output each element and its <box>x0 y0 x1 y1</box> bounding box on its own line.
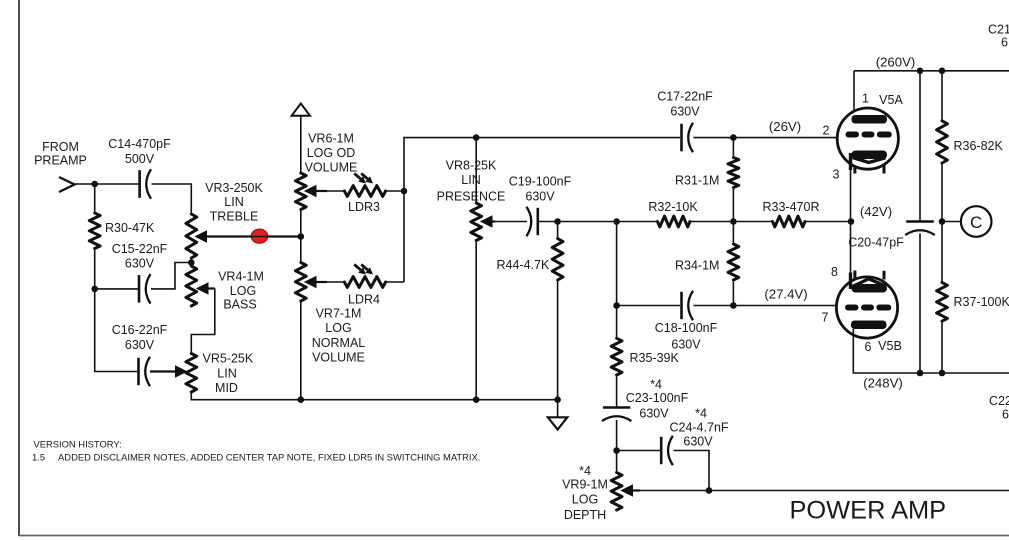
svg-text:500V: 500V <box>125 152 155 166</box>
capacitor C15 <box>138 275 141 303</box>
svg-text:630V: 630V <box>671 338 701 352</box>
wiper VR6 arrow <box>305 186 316 197</box>
svg-text:630V: 630V <box>683 435 713 449</box>
resistor R32 <box>658 216 691 227</box>
svg-text:C16-22nF: C16-22nF <box>112 323 168 337</box>
svg-text:C17-22nF: C17-22nF <box>657 90 713 104</box>
svg-text:1: 1 <box>862 92 869 106</box>
svg-text:LOG OD: LOG OD <box>307 146 356 160</box>
wiper VR9 arrow <box>622 485 633 496</box>
svg-text:LDR4: LDR4 <box>348 293 380 307</box>
svg-text:630V: 630V <box>125 338 155 352</box>
node ground rail junction <box>554 396 561 403</box>
svg-text:6: 6 <box>1002 408 1009 422</box>
svg-text:TREBLE: TREBLE <box>210 210 259 224</box>
wire R32 to R33 <box>690 221 773 223</box>
V5B cathode <box>852 284 888 293</box>
svg-text:630V: 630V <box>525 190 555 204</box>
node LDR3 right junction <box>401 188 408 195</box>
svg-text:V5B: V5B <box>878 339 902 353</box>
node C18 left junction <box>613 302 620 309</box>
capacitor C20 <box>906 220 934 223</box>
V5B grid dashes <box>845 305 859 311</box>
resistor R35 <box>616 306 618 339</box>
wire triangle to VR6 <box>300 116 302 173</box>
resistor R36 <box>941 71 943 121</box>
wire input node down to R30 <box>94 184 96 213</box>
capacitor C14 <box>138 170 141 198</box>
wire node to C15 <box>95 288 138 290</box>
node input junction <box>91 181 98 188</box>
svg-text:7: 7 <box>822 311 829 325</box>
node depth branch <box>613 218 620 225</box>
resistor R34 <box>732 222 734 245</box>
svg-text:C19-100nF: C19-100nF <box>509 175 572 189</box>
svg-text:R36-82K: R36-82K <box>954 139 1004 153</box>
svg-text:2: 2 <box>823 124 830 138</box>
wire VR4 wiper to VR5 top <box>191 289 215 354</box>
svg-text:VR9-1M: VR9-1M <box>562 478 608 492</box>
wire to C terminal <box>942 221 961 223</box>
wiper VR7 arrow <box>305 277 316 288</box>
wiper VR3 arrow <box>196 231 207 242</box>
capacitor C16 <box>137 358 140 385</box>
node treble wire junction <box>298 233 305 240</box>
svg-text:C15-22nF: C15-22nF <box>112 242 168 256</box>
svg-text:R35-39K: R35-39K <box>630 351 680 365</box>
svg-text:POWER AMP: POWER AMP <box>790 497 947 525</box>
node VR8 rail junction <box>473 396 480 403</box>
node R31 top <box>730 134 737 141</box>
wire VR3 to VR4 link <box>190 258 192 266</box>
svg-text:MID: MID <box>215 381 238 395</box>
capacitor C24 <box>660 437 663 464</box>
svg-text:R31-1M: R31-1M <box>675 174 719 188</box>
V5B anode plate <box>851 321 887 330</box>
node C24 branch <box>613 447 620 454</box>
LDR4 light arrows <box>354 264 361 270</box>
wire LDR junction vertical <box>404 138 680 282</box>
node rail A bottom <box>917 370 924 377</box>
potentiometer VR7 <box>295 263 306 302</box>
wire depth branch vertical upper <box>616 222 618 306</box>
svg-text:R44-4.7K: R44-4.7K <box>497 258 550 272</box>
svg-text:C23-100nF: C23-100nF <box>626 391 689 405</box>
node C18 right junction <box>730 302 737 309</box>
V5A heater <box>853 158 886 163</box>
resistor R31 <box>732 138 734 158</box>
potentiometer VR5 <box>186 354 197 393</box>
wire V5A anode lead <box>853 71 855 116</box>
wiper VR4 arrow <box>197 283 208 294</box>
wiper VR5 arrow <box>176 366 187 377</box>
svg-text:C18-100nF: C18-100nF <box>655 321 718 335</box>
wire V5B anode to 248V rail <box>853 329 1009 373</box>
wire 260V rail <box>854 70 1009 72</box>
svg-text:R33-470R: R33-470R <box>763 200 820 214</box>
svg-text:VOLUME: VOLUME <box>312 351 365 365</box>
svg-text:(248V): (248V) <box>863 376 903 391</box>
potentiometer VR6 <box>295 173 306 210</box>
node rail A top <box>917 68 924 75</box>
wire C14 to VR3 top <box>152 184 192 214</box>
svg-text:*4: *4 <box>650 378 662 392</box>
node C15 branch <box>91 286 98 293</box>
potentiometer VR9 <box>611 473 622 511</box>
capacitor C23 <box>603 406 631 409</box>
svg-text:1.5 ADDED DISCLAIMER NOTES: 1.5 ADDED DISCLAIMER NOTES, ADDED CENTER… <box>32 452 480 463</box>
wire R30 to C15 node <box>94 249 96 289</box>
wire C17 to V5A grid <box>694 137 847 139</box>
wire input to C14 <box>75 183 140 185</box>
svg-text:R32-10K: R32-10K <box>648 200 698 214</box>
svg-text:LOG: LOG <box>230 284 256 298</box>
svg-text:C20-47pF: C20-47pF <box>848 236 904 250</box>
wire C15 to VR3/VR4 junction <box>151 263 191 289</box>
svg-text:R30-47K: R30-47K <box>105 221 155 235</box>
svg-text:630V: 630V <box>125 257 155 271</box>
svg-text:*4: *4 <box>579 464 591 478</box>
border frame left <box>18 0 20 536</box>
resistor R37 <box>937 283 948 322</box>
svg-text:C22-: C22- <box>989 394 1009 408</box>
wire C23 to VR9 <box>616 420 618 473</box>
wire rail A lower <box>919 234 921 374</box>
svg-text:VR5-25K: VR5-25K <box>203 352 254 366</box>
node R31 R34 junction <box>730 218 737 225</box>
resistor R30 <box>89 213 100 249</box>
svg-text:PREAMP: PREAMP <box>34 154 87 168</box>
svg-text:3: 3 <box>833 168 840 182</box>
triode V5A envelope <box>837 108 898 169</box>
capacitor C17 <box>680 124 683 152</box>
V5A grid dashes <box>846 132 860 138</box>
border frame bottom <box>19 535 1009 537</box>
potentiometer VR4 <box>186 266 197 306</box>
wire VR8 bottom to rail <box>475 241 477 400</box>
svg-text:(42V): (42V) <box>860 204 892 219</box>
svg-text:LDR3: LDR3 <box>348 200 380 214</box>
wire VR8 top lead <box>475 138 477 203</box>
wire C24 row <box>617 450 660 452</box>
wire VR7 bottom to rail <box>300 301 302 400</box>
svg-text:VR3-250K: VR3-250K <box>205 181 263 195</box>
svg-text:VR7-1M: VR7-1M <box>316 307 362 321</box>
svg-text:6: 6 <box>1001 36 1008 50</box>
svg-text:DEPTH: DEPTH <box>564 508 606 522</box>
wire C24 to depth wire <box>674 451 710 491</box>
resistor LDR4 <box>327 281 344 283</box>
svg-text:NORMAL: NORMAL <box>312 336 366 350</box>
resistor LDR3 <box>327 190 344 192</box>
svg-text:*4: *4 <box>695 407 707 421</box>
svg-text:(26V): (26V) <box>769 119 801 134</box>
node red highlight dot <box>251 229 267 243</box>
svg-text:6: 6 <box>865 340 872 354</box>
node C terminal junction <box>939 218 946 225</box>
wire C18 to V5B grid <box>694 305 846 307</box>
wire left rail down to C16 <box>95 289 137 372</box>
wire VR5 bottom to ground rail <box>191 392 557 400</box>
svg-text:VERSION HISTORY:: VERSION HISTORY: <box>34 439 122 450</box>
terminal C circle <box>961 206 992 237</box>
node R44 top <box>554 218 561 225</box>
svg-text:V5A: V5A <box>879 93 903 107</box>
svg-text:LIN: LIN <box>224 195 243 209</box>
svg-text:R37-100K: R37-100K <box>954 295 1009 309</box>
node rail B bottom <box>939 370 946 377</box>
svg-text:8: 8 <box>831 265 838 279</box>
svg-text:BASS: BASS <box>223 298 256 312</box>
wire VR6 to VR7 <box>300 210 302 263</box>
svg-text:VR6-1M: VR6-1M <box>308 132 354 146</box>
V5A cathode <box>852 151 888 160</box>
wire C18 left <box>617 305 680 307</box>
node cathode link junction <box>848 218 855 225</box>
svg-text:VR4-1M: VR4-1M <box>218 270 264 284</box>
node rail B top <box>939 68 946 75</box>
wire rail A upper <box>919 71 921 222</box>
V5A anode plate <box>852 115 888 124</box>
svg-text:(260V): (260V) <box>876 54 916 69</box>
potentiometer VR8 <box>471 203 482 241</box>
svg-text:C14-470pF: C14-470pF <box>108 137 171 151</box>
wire VR9 wiper to power amp <box>639 490 1009 492</box>
resistor R33 <box>773 216 806 227</box>
LDR3 light arrows <box>354 173 361 179</box>
power symbol triangle <box>292 104 310 116</box>
wire cascode link <box>850 168 852 274</box>
node VR3-VR4 junction <box>188 259 195 266</box>
ground symbol <box>557 400 559 417</box>
node VR7 rail junction <box>298 396 305 403</box>
wiper VR8 arrow <box>481 216 492 227</box>
capacitor C19 <box>536 208 539 235</box>
svg-text:R34-1M: R34-1M <box>675 259 719 273</box>
wire R33 to cathode link <box>805 221 851 223</box>
svg-text:630V: 630V <box>670 105 700 119</box>
svg-text:LIN: LIN <box>217 367 236 381</box>
svg-text:FROM: FROM <box>42 140 79 154</box>
svg-text:VOLUME: VOLUME <box>305 161 358 175</box>
svg-text:C: C <box>970 213 982 232</box>
svg-text:C24-4.7nF: C24-4.7nF <box>669 421 728 435</box>
svg-text:LOG: LOG <box>572 493 598 507</box>
svg-text:C21-: C21- <box>988 23 1009 37</box>
svg-text:630V: 630V <box>639 407 669 421</box>
V5B heater <box>853 279 886 287</box>
potentiometer VR3 <box>186 214 197 258</box>
resistor R44 <box>557 222 559 239</box>
svg-text:PRESENCE: PRESENCE <box>437 190 506 204</box>
wire VR8 wiper to C19 <box>494 221 527 223</box>
svg-text:VR8-25K: VR8-25K <box>446 159 497 173</box>
node VR8 top junction <box>473 134 480 141</box>
capacitor C18 <box>680 292 683 319</box>
wire treble wiper row <box>205 236 301 238</box>
svg-text:(27.4V): (27.4V) <box>764 287 807 302</box>
wire C19 to R32 <box>538 221 658 223</box>
svg-text:LIN: LIN <box>461 173 480 187</box>
node depth output junction <box>706 487 713 494</box>
svg-text:LOG: LOG <box>325 321 351 335</box>
triode V5B envelope <box>836 277 897 338</box>
input arrow FROM PREAMP <box>59 177 75 192</box>
